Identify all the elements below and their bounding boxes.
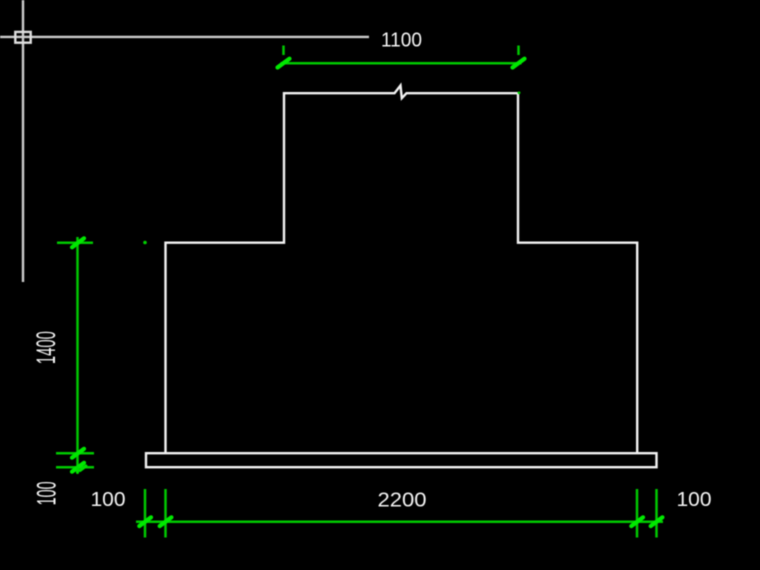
svg-text:100: 100 bbox=[677, 489, 712, 511]
svg-text:1100: 1100 bbox=[381, 29, 422, 51]
svg-text:100: 100 bbox=[32, 481, 62, 505]
svg-text:2200: 2200 bbox=[378, 490, 427, 512]
svg-text:1400: 1400 bbox=[31, 331, 61, 364]
svg-text:100: 100 bbox=[91, 489, 126, 511]
